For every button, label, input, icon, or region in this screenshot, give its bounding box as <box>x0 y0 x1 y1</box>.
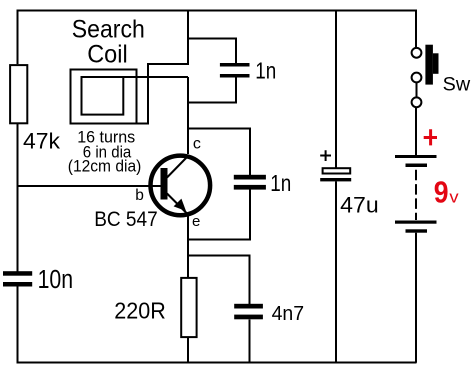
wire coil inner top extension <box>123 76 188 78</box>
svg-text:1n: 1n <box>270 170 291 196</box>
svg-text:Sw: Sw <box>443 75 471 96</box>
transistor emitter diagonal <box>167 194 189 216</box>
svg-text:10n: 10n <box>38 266 74 294</box>
svg-text:b: b <box>135 187 144 204</box>
svg-text:1n: 1n <box>255 58 276 84</box>
switch Sw actuator bar <box>425 45 433 85</box>
wire left rail upper segment <box>17 10 19 65</box>
capacitor C2 1n plates <box>234 175 266 180</box>
switch Sw actuator button <box>433 53 439 74</box>
transistor collector diagonal <box>167 156 188 178</box>
transistor emitter arrow <box>174 199 186 211</box>
wire left rail middle segment <box>17 124 19 272</box>
coil L1 outer loop <box>71 70 137 124</box>
capacitor C1 1n plates <box>220 63 250 67</box>
battery B1 cell 2 short plate <box>406 229 428 232</box>
switch Sw contact 3 <box>412 97 422 107</box>
wire emitter vertical <box>187 216 189 278</box>
capacitor C3 47u electrolytic negative plate <box>320 178 351 181</box>
transistor base bar <box>161 168 168 200</box>
svg-text:BC 547: BC 547 <box>94 207 158 231</box>
wire between contacts 2 and 3 <box>416 83 418 98</box>
capacitor C1 1n top branch wire upper <box>188 39 236 64</box>
svg-text:9: 9 <box>434 175 449 209</box>
wire top rail <box>17 10 418 12</box>
resistor R1 47k <box>10 65 27 123</box>
svg-text:220R: 220R <box>114 297 166 323</box>
svg-text:v: v <box>449 187 459 206</box>
wire right rail to switch <box>415 10 417 48</box>
wire coil outer to upper node <box>138 64 189 124</box>
svg-text:c: c <box>193 136 201 153</box>
wire base from left rail <box>18 185 161 187</box>
capacitor C1 1n top branch wire lower <box>188 78 236 103</box>
wire 47u branch upper <box>335 11 337 168</box>
battery B1 cell 1 short plate <box>406 164 428 168</box>
battery B1 cell 1 long plate <box>395 155 437 158</box>
svg-text:(12cm dia): (12cm dia) <box>68 158 142 176</box>
capacitor C2 1n middle branch wire lower <box>188 190 250 240</box>
battery B1 cell 2 long plate <box>395 221 437 224</box>
svg-text:47k: 47k <box>23 129 60 154</box>
capacitor C5 10n plates <box>3 271 32 286</box>
transistor Q1 BC547 circle <box>151 156 211 216</box>
battery dashed link <box>415 170 417 220</box>
svg-text:4n7: 4n7 <box>272 303 305 325</box>
wire center vertical upper segment <box>187 11 189 66</box>
capacitor C2 1n middle branch wire upper <box>188 129 250 176</box>
capacitor C4 4n7 plates <box>234 304 263 309</box>
wire battery to bottom rail <box>415 233 417 363</box>
resistor R2 220R <box>181 278 196 337</box>
wire 47u branch lower <box>335 181 337 362</box>
label plus black 47u <box>320 150 331 161</box>
svg-text:47u: 47u <box>340 192 379 217</box>
capacitor C4 4n7 branch wire lower <box>249 320 251 362</box>
wire 220R bottom <box>187 338 189 362</box>
switch Sw contact 2 <box>412 73 422 83</box>
capacitor C4 4n7 branch wire upper <box>188 256 250 305</box>
label plus red battery <box>424 129 437 145</box>
svg-text:Search: Search <box>72 16 145 44</box>
wire bottom rail <box>17 362 417 364</box>
capacitor C3 47u electrolytic positive plate <box>323 168 351 173</box>
wire left rail lower segment <box>17 287 19 364</box>
coil L1 inner loop <box>82 77 124 115</box>
wire switch to battery <box>415 107 417 155</box>
svg-text:e: e <box>192 213 200 230</box>
switch Sw contact 1 <box>412 48 422 58</box>
svg-text:Coil: Coil <box>87 41 128 69</box>
wire center vertical lower segment <box>187 77 189 154</box>
